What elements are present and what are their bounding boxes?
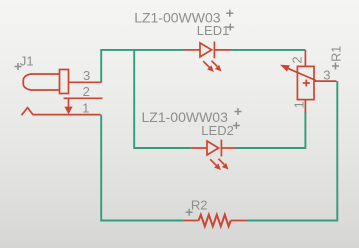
J1 pin 3 wire [69, 81, 102, 83]
R1 pin 3 wire [314, 80, 336, 82]
svg-text:LED2: LED2 [201, 123, 234, 138]
LED1 light arrow a shaft [203, 61, 209, 67]
J1 pin 2 wire [64, 97, 103, 99]
LED2 arrow b head [222, 163, 229, 170]
svg-text:R2: R2 [191, 198, 208, 213]
LED2 cathode bar [220, 140, 222, 157]
svg-text:1: 1 [291, 101, 306, 108]
LED1 cathode bar [213, 42, 215, 59]
origin cross for LED2 name [233, 122, 240, 129]
wire net top rail left segment with J1 pin3 riser [101, 50, 184, 83]
J1 switch chevron and pin 1 wire [22, 108, 101, 116]
R1 pin 1 wire [304, 100, 306, 113]
svg-text:LED1: LED1 [197, 23, 230, 38]
svg-text:R1: R1 [330, 46, 344, 62]
origin cross for LED1 value [226, 10, 233, 17]
R2 left lead [184, 220, 199, 222]
LED1 light arrow b shaft [212, 61, 218, 67]
J1 switch arrow shaft [68, 98, 70, 107]
potentiometer R1 [288, 50, 337, 113]
LED LED1 [185, 42, 232, 68]
J1 switch arrow head [64, 107, 72, 115]
svg-text:1: 1 [82, 101, 89, 116]
LED1 arrow a head [207, 65, 214, 72]
wire bottom rail left with J1 pin1 drop [101, 115, 184, 221]
R2 right lead [231, 220, 247, 222]
origin cross for LED2 value [235, 108, 242, 115]
R1 plus mark [303, 80, 310, 87]
R1 wiper arrow head [280, 65, 290, 72]
svg-text:3: 3 [323, 68, 330, 83]
wire LED2 to R1 pin1 riser [236, 112, 306, 148]
LED2 light arrow b shaft [219, 159, 225, 165]
LED2 triangle [207, 141, 219, 155]
R2 zigzag [199, 215, 231, 227]
LED1 triangle [200, 43, 212, 57]
LED1 right lead [214, 49, 231, 51]
LED1 arrow b head [215, 65, 222, 72]
J1 sleeve rectangle [60, 70, 69, 94]
LED2 arrow a head [214, 163, 221, 170]
LED2 left lead [191, 147, 207, 149]
svg-text:3: 3 [83, 68, 90, 83]
svg-text:J1: J1 [20, 54, 34, 69]
svg-text:2: 2 [83, 84, 90, 99]
svg-text:2: 2 [289, 56, 304, 63]
origin cross for LED1 name [227, 24, 234, 31]
R1 wiper arrow shaft [288, 68, 316, 80]
R1 body [297, 66, 314, 99]
origin cross for R2 [186, 209, 193, 216]
origin cross for R1 [332, 63, 339, 70]
resistor R2 [184, 215, 247, 227]
LED LED2 [191, 140, 236, 166]
wire bottom rail right with R1 pin3 riser [247, 81, 338, 220]
LED2 light arrow a shaft [210, 159, 216, 165]
R1 pin 2 wire [304, 50, 306, 66]
LED2 right lead [221, 147, 235, 149]
J1 barrel body [23, 74, 59, 90]
origin cross for J1 [15, 63, 22, 70]
wire inner loop left vertical to LED2 [134, 50, 191, 148]
LED1 left lead [185, 49, 201, 51]
wire net top rail right segment [231, 49, 305, 51]
connector J1 [22, 70, 103, 116]
